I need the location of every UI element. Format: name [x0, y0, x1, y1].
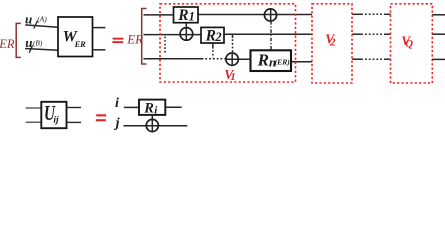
svg-text:R: R: [205, 28, 216, 45]
svg-text:(B): (B): [33, 38, 43, 47]
svg-text:(A): (A): [37, 15, 47, 24]
wire 2 out of VQ: [432, 33, 445, 35]
equals sign (bottom): [96, 114, 106, 121]
wire u(B) into W_ER with underline: [25, 49, 58, 51]
dashed box V2: [312, 4, 352, 83]
wire 3 out of VQ: [432, 58, 445, 60]
connector below R2 dotted: [212, 50, 214, 58]
wire 2 V2 to VQ: [352, 33, 391, 35]
svg-text:ER: ER: [0, 37, 15, 51]
wire 3 stub solid: [144, 58, 202, 60]
connector below R2 solid stub: [212, 43, 214, 49]
connector R1 to target: [185, 23, 187, 40]
gate W_ER: [58, 17, 93, 57]
svg-text:ij: ij: [53, 116, 59, 126]
wire 1 V2 to VQ: [352, 13, 391, 15]
wire j into U_ij: [26, 121, 42, 123]
svg-text:(ER): (ER): [275, 58, 291, 67]
gate U_ij: [41, 101, 66, 128]
node u(B) label: [25, 35, 43, 50]
svg-text:R: R: [177, 7, 188, 24]
wire u(A) into W_ER with underline: [25, 25, 58, 27]
svg-text:1: 1: [230, 71, 236, 83]
wire 1 stub into V1: [144, 14, 174, 16]
dashed box VQ: [391, 4, 433, 83]
connector above target wire3 solid stub: [232, 35, 234, 39]
gate R_i: [139, 100, 165, 117]
svg-text:R: R: [257, 50, 269, 69]
label VQ: [401, 33, 413, 50]
gate R1: [174, 7, 199, 24]
svg-text:ER: ER: [74, 40, 87, 49]
CNOT target on wire 1: [264, 9, 276, 21]
svg-text:i: i: [115, 96, 119, 111]
CNOT target on wire 2: [180, 28, 193, 41]
wire 3 through CNOT target into Rn: [226, 58, 251, 60]
svg-text:u: u: [25, 11, 32, 26]
wire 2 from R2 to V2: [224, 33, 312, 35]
connector above target wire3 dotted: [232, 39, 234, 52]
svg-text:R: R: [143, 101, 154, 117]
equals sign (top): [112, 38, 123, 43]
bus slash wire 2: [29, 45, 32, 52]
wire i out of R_i: [165, 106, 181, 108]
gate Rn(ER): [251, 50, 292, 71]
wire j out of U_ij: [67, 121, 82, 123]
svg-text:ER: ER: [126, 31, 143, 46]
label V2: [325, 32, 336, 49]
dash-dot connector target wire1 to Rn: [270, 21, 272, 50]
wire j through target: [124, 125, 188, 127]
CNOT target on wire 3: [226, 53, 238, 65]
wire 2 stub to R2: [144, 34, 202, 36]
dashed box V1: [160, 4, 296, 82]
node u(A) label: [25, 11, 47, 26]
svg-text:1: 1: [189, 9, 195, 23]
wire i to R_i: [124, 106, 139, 108]
wire 3 V2 to VQ: [352, 58, 391, 60]
wire 3 dotted continuation: [202, 58, 227, 60]
wire 1 out of VQ: [432, 14, 445, 16]
CNOT target on wire j: [146, 119, 158, 131]
svg-text:2: 2: [214, 30, 221, 44]
bracket (rhs): [142, 9, 147, 65]
label V1: [224, 67, 236, 83]
wire i out of U_ij: [67, 107, 82, 109]
wire W_ER out 2: [93, 49, 106, 51]
wire i into U_ij: [26, 107, 42, 109]
gate R2: [201, 27, 224, 44]
wire W_ER out 1: [93, 27, 106, 29]
wire 1 from R1 to V2: [198, 14, 312, 16]
connector R_i to target j: [151, 115, 153, 132]
bus slash wire 1: [34, 21, 38, 29]
svg-text:Q: Q: [405, 39, 413, 50]
bracket (lhs): [16, 23, 21, 57]
vertical ellipsis omitted wires: [164, 37, 166, 55]
wire 3 from Rn to V2: [291, 61, 312, 63]
svg-text:2: 2: [329, 37, 336, 49]
